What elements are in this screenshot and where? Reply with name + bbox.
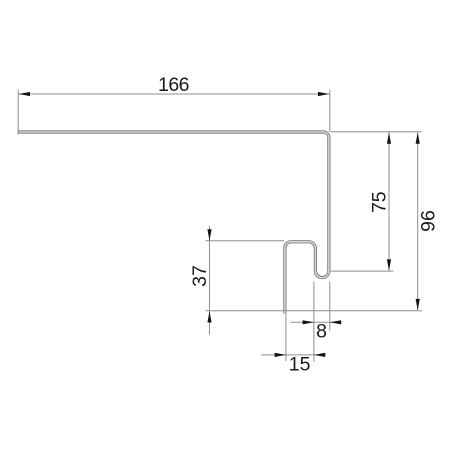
svg-text:15: 15 [289, 354, 311, 376]
sheet-metal profile core (band: light fill between edges) [18, 132, 329, 314]
arrowhead 96 top [416, 132, 420, 143]
extension line top right (profile top to dim 96) [331, 131, 422, 133]
svg-text:96: 96 [418, 210, 440, 232]
extension line right of dim 166 [329, 90, 331, 132]
extension line left of dim 15 (left leg) [285, 312, 287, 361]
dimension line 15 [261, 354, 326, 356]
arrowhead 15 right (outside, pointing left) [314, 353, 325, 357]
svg-text:37: 37 [189, 265, 211, 287]
arrowhead 8 left (outside, pointing right) [303, 320, 314, 324]
dimension line 37 [209, 226, 211, 335]
arrowhead 96 bottom [416, 299, 420, 310]
dimension line 166 [18, 93, 330, 95]
svg-text:75: 75 [369, 191, 391, 213]
dimension line 8 [291, 321, 342, 323]
extension line bottom shared by dims 37 and 96 [206, 310, 422, 312]
svg-text:166: 166 [158, 74, 189, 96]
extension line left of dim 166 [17, 90, 19, 135]
arrowhead 166 right [318, 92, 329, 96]
arrowhead 37 bottom (outside, pointing up) [207, 311, 211, 322]
extension line right of dim 8 (right leg) [329, 282, 331, 331]
dimension line 75 [388, 132, 390, 271]
sheet-metal profile outline (band: outer edges) [18, 132, 329, 314]
extension line top of dim 37 [206, 240, 284, 242]
arrowhead 166 left [19, 92, 30, 96]
dimension line 96 [417, 132, 419, 310]
arrowhead 75 top [387, 132, 391, 143]
extension line bottom of dim 75 [331, 270, 394, 272]
arrowhead 8 right (outside, pointing left) [330, 320, 341, 324]
svg-text:8: 8 [316, 321, 327, 343]
arrowhead 75 bottom [387, 259, 391, 270]
arrowhead 15 left (outside, pointing right) [275, 353, 286, 357]
extension line left of dim 8 (hook left wall) [313, 282, 315, 363]
arrowhead 37 top (outside, pointing down) [207, 229, 211, 240]
